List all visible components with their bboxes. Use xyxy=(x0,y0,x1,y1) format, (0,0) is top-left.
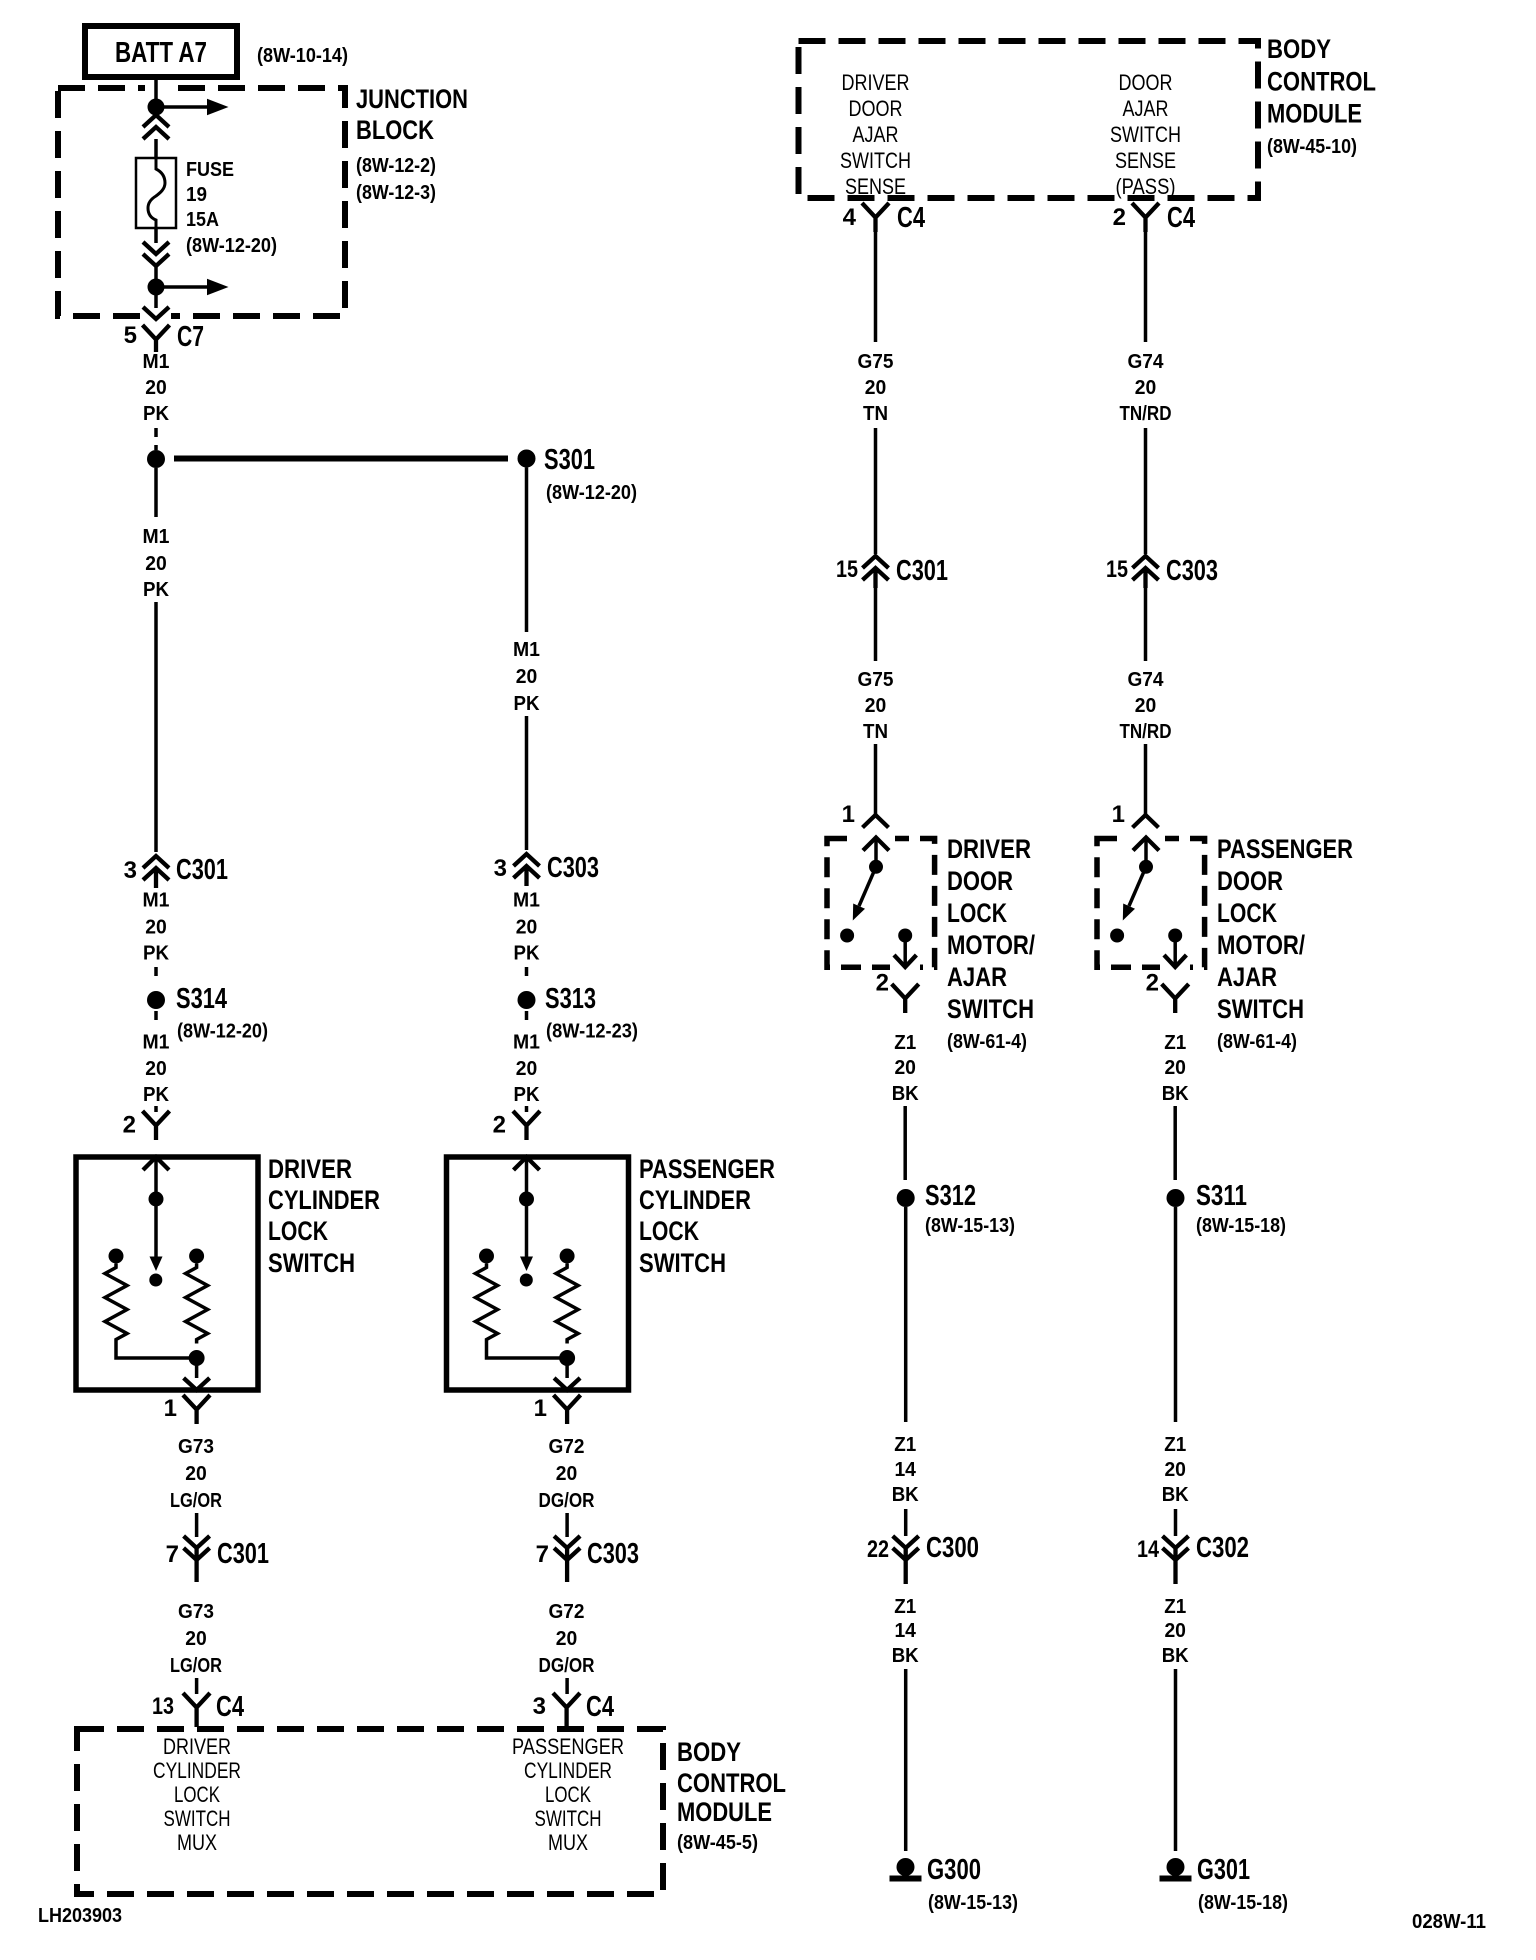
wire label Z1 20 BK xyxy=(892,1032,920,1105)
wire resistor bottoms join xyxy=(487,1344,568,1359)
svg-text:20: 20 xyxy=(145,553,167,575)
svg-text:BATT A7: BATT A7 xyxy=(115,37,207,69)
node at fuse feed xyxy=(148,99,165,116)
pin 1 chevron of passenger door lock motor xyxy=(1112,801,1159,828)
pin label door ajar switch sense (pass) xyxy=(1110,70,1181,199)
svg-text:LOCK: LOCK xyxy=(545,1782,591,1807)
svg-text:20: 20 xyxy=(556,1463,578,1485)
svg-text:DRIVER: DRIVER xyxy=(268,1154,352,1184)
svg-text:LOCK: LOCK xyxy=(268,1216,328,1246)
node at resistor join xyxy=(559,1350,575,1366)
connector C301 pin 7 xyxy=(166,1536,269,1582)
svg-text:SENSE: SENSE xyxy=(845,174,906,199)
ground G300 xyxy=(890,1854,982,1886)
svg-text:AJAR: AJAR xyxy=(1217,962,1277,992)
arrow feed to other circuits (top) xyxy=(164,99,229,116)
svg-text:G75: G75 xyxy=(858,351,894,373)
svg-text:PK: PK xyxy=(143,579,170,601)
svg-text:TN: TN xyxy=(863,721,888,743)
svg-text:M1: M1 xyxy=(143,351,170,373)
svg-text:S314: S314 xyxy=(176,983,227,1015)
wire label M1 20 PK xyxy=(143,526,170,601)
svg-text:CYLINDER: CYLINDER xyxy=(524,1758,612,1783)
svg-text:AJAR: AJAR xyxy=(1123,96,1169,121)
svg-text:S311: S311 xyxy=(1196,1180,1247,1212)
passenger door lock motor label xyxy=(1217,834,1353,1053)
svg-text:PK: PK xyxy=(514,693,541,715)
svg-text:15: 15 xyxy=(1106,556,1128,583)
svg-text:Z1: Z1 xyxy=(1164,1434,1186,1456)
svg-text:7: 7 xyxy=(536,1541,549,1568)
wire label M1 20 PK xyxy=(143,890,170,965)
resistor left (passenger cylinder lock switch) xyxy=(476,1264,498,1344)
entry arrow into driver cylinder lock switch xyxy=(143,1157,169,1192)
left contact node xyxy=(109,1249,124,1264)
svg-text:C7: C7 xyxy=(177,321,204,353)
wire col4 to S311 xyxy=(1173,1106,1177,1180)
svg-text:MODULE: MODULE xyxy=(677,1797,772,1827)
svg-text:LOCK: LOCK xyxy=(639,1216,699,1246)
dashed wire below S313 xyxy=(525,1011,529,1026)
splice S311 xyxy=(1167,1180,1248,1212)
entry arrow into passenger door lock motor box xyxy=(1133,838,1159,861)
dashed wire above S314 xyxy=(154,967,158,981)
svg-text:DRIVER: DRIVER xyxy=(163,1734,231,1759)
svg-text:SWITCH: SWITCH xyxy=(1110,122,1181,147)
svg-text:MOTOR/: MOTOR/ xyxy=(947,930,1035,960)
svg-text:SWITCH: SWITCH xyxy=(840,148,911,173)
connector C4 pin 4 fork (driver door ajar sense) xyxy=(843,202,925,234)
connector C301 pin 15 xyxy=(836,555,948,588)
svg-text:C302: C302 xyxy=(1196,1532,1249,1564)
svg-text:(PASS): (PASS) xyxy=(1116,174,1176,199)
connector C300 pin 22 xyxy=(867,1532,979,1584)
svg-text:Z1: Z1 xyxy=(1164,1596,1186,1618)
svg-text:(8W-61-4): (8W-61-4) xyxy=(947,1031,1027,1053)
svg-text:(8W-15-18): (8W-15-18) xyxy=(1198,1892,1288,1914)
wire to connector C4 pin 3 xyxy=(565,1678,569,1694)
svg-text:S301: S301 xyxy=(544,444,595,476)
svg-text:15: 15 xyxy=(836,556,858,583)
svg-text:TN/RD: TN/RD xyxy=(1120,721,1172,743)
svg-text:C301: C301 xyxy=(896,555,948,587)
svg-text:DG/OR: DG/OR xyxy=(539,1490,595,1512)
svg-text:3: 3 xyxy=(533,1693,546,1720)
pin 2 fork of driver cylinder lock switch xyxy=(123,1111,170,1140)
entry arrow into driver door lock motor box xyxy=(863,838,889,861)
svg-text:DOOR: DOOR xyxy=(1119,70,1173,95)
splice S313 xyxy=(518,983,597,1015)
svg-text:SWITCH: SWITCH xyxy=(268,1248,355,1278)
svg-text:MUX: MUX xyxy=(177,1830,217,1855)
svg-text:PK: PK xyxy=(514,1084,541,1106)
body control module bottom dashed box xyxy=(77,1729,663,1894)
connector C303 pin 7 xyxy=(536,1536,639,1582)
svg-text:20: 20 xyxy=(185,1628,207,1650)
exit wire and chevron of driver cylinder lock switch xyxy=(184,1358,210,1390)
svg-text:14: 14 xyxy=(1137,1536,1160,1563)
svg-text:BODY: BODY xyxy=(1267,34,1331,64)
svg-text:TN: TN xyxy=(863,403,888,425)
wire col3 to S312 xyxy=(903,1106,907,1180)
wire label Z1 14 BK xyxy=(892,1596,920,1667)
svg-text:20: 20 xyxy=(516,666,538,688)
svg-text:13: 13 xyxy=(152,1693,174,1720)
passenger door lock motor ajar switch dashed box xyxy=(1097,839,1205,968)
connector C302 pin 14 xyxy=(1137,1532,1249,1584)
svg-text:C301: C301 xyxy=(176,854,228,886)
pin label driver cylinder lock switch mux xyxy=(153,1734,241,1855)
svg-text:BK: BK xyxy=(1162,1484,1190,1506)
switch contact node left (passenger) xyxy=(1110,929,1124,943)
svg-text:(8W-10-14): (8W-10-14) xyxy=(257,45,348,67)
svg-text:BK: BK xyxy=(1162,1645,1190,1667)
wire label Z1 20 BK xyxy=(1162,1596,1190,1667)
dashed wire to splice node xyxy=(154,428,158,450)
svg-text:S312: S312 xyxy=(925,1180,976,1212)
wire label Z1 20 BK xyxy=(1162,1032,1190,1105)
fuse 19 15A xyxy=(136,158,176,228)
wire label Z1 20 BK xyxy=(1162,1434,1190,1506)
wire node to junction block edge xyxy=(154,295,158,308)
wire BATT A7 to node xyxy=(154,77,158,100)
wire col4 to ground xyxy=(1174,1669,1178,1851)
driver cylinder lock switch label xyxy=(268,1154,380,1278)
svg-text:LOCK: LOCK xyxy=(947,898,1007,928)
wire to passenger cylinder lock switch xyxy=(525,1106,529,1112)
svg-text:G300: G300 xyxy=(927,1854,981,1886)
right contact node xyxy=(560,1249,575,1264)
ground G301 xyxy=(1160,1854,1251,1886)
chevron at junction block exit xyxy=(143,307,169,319)
double chevron connector into fuse xyxy=(143,115,169,139)
wire col1 below node xyxy=(154,468,158,517)
svg-text:Z1: Z1 xyxy=(894,1596,916,1618)
svg-text:20: 20 xyxy=(1135,695,1157,717)
svg-text:20: 20 xyxy=(1164,1620,1186,1642)
svg-text:G72: G72 xyxy=(549,1601,585,1623)
svg-text:C4: C4 xyxy=(1167,202,1195,234)
svg-text:14: 14 xyxy=(894,1620,916,1642)
svg-text:MODULE: MODULE xyxy=(1267,99,1362,129)
svg-text:(8W-15-13): (8W-15-13) xyxy=(928,1892,1018,1914)
wire col4 to motor box xyxy=(1144,744,1148,815)
resistor left (driver cylinder lock switch) xyxy=(105,1264,127,1344)
svg-text:20: 20 xyxy=(894,1057,916,1079)
svg-text:BODY: BODY xyxy=(677,1737,741,1767)
exit wire and chevron of driver motor box xyxy=(894,936,916,968)
svg-text:BK: BK xyxy=(892,1645,920,1667)
wire label G72 20 DG/OR xyxy=(539,1601,595,1677)
splice S301 xyxy=(518,444,596,476)
svg-text:FUSE: FUSE xyxy=(186,159,234,181)
svg-text:G74: G74 xyxy=(1128,351,1165,373)
svg-text:C4: C4 xyxy=(586,1691,614,1723)
svg-text:M1: M1 xyxy=(513,639,540,661)
dashed wire above S313 xyxy=(525,967,529,981)
pin 1 fork below passenger cylinder lock switch xyxy=(534,1395,581,1424)
wire to connector C4 pin 13 xyxy=(195,1678,199,1694)
switch contact node right (driver) xyxy=(898,929,912,943)
svg-text:20: 20 xyxy=(516,917,538,939)
svg-text:CYLINDER: CYLINDER xyxy=(153,1758,241,1783)
svg-text:15A: 15A xyxy=(186,209,219,231)
battery feed box BATT A7 xyxy=(85,26,237,77)
wire label G72 20 DG/OR xyxy=(539,1436,595,1512)
svg-text:DOOR: DOOR xyxy=(1217,866,1283,896)
wire label G75 20 TN xyxy=(858,669,894,743)
svg-text:SWITCH: SWITCH xyxy=(639,1248,726,1278)
svg-text:BK: BK xyxy=(1162,1083,1190,1105)
svg-text:PASSENGER: PASSENGER xyxy=(512,1734,624,1759)
svg-text:M1: M1 xyxy=(143,1032,170,1054)
connector C303 pin 3 xyxy=(494,852,599,886)
junction block dashed box xyxy=(58,88,345,316)
wire col3 to ground xyxy=(904,1669,908,1851)
svg-text:19: 19 xyxy=(186,184,207,206)
svg-text:1: 1 xyxy=(164,1395,177,1422)
svg-text:20: 20 xyxy=(865,377,887,399)
wire col2 below S301 xyxy=(525,468,529,633)
svg-text:5: 5 xyxy=(124,322,137,349)
svg-text:C301: C301 xyxy=(217,1538,269,1570)
svg-text:20: 20 xyxy=(145,1058,167,1080)
pin 1 chevron of driver door lock motor xyxy=(842,801,889,828)
passenger cylinder lock switch box xyxy=(447,1157,629,1390)
svg-text:DOOR: DOOR xyxy=(849,96,903,121)
svg-text:CONTROL: CONTROL xyxy=(677,1768,786,1798)
wire col3 long run below S312 xyxy=(904,1207,908,1422)
svg-text:20: 20 xyxy=(556,1628,578,1650)
svg-text:20: 20 xyxy=(145,377,167,399)
svg-text:AJAR: AJAR xyxy=(947,962,1007,992)
splice S312 xyxy=(897,1180,976,1212)
wiper node of passenger cylinder lock switch xyxy=(519,1192,534,1207)
svg-text:22: 22 xyxy=(867,1536,889,1563)
svg-text:S313: S313 xyxy=(545,983,596,1015)
svg-text:CYLINDER: CYLINDER xyxy=(639,1185,751,1215)
wire to driver cylinder lock switch xyxy=(154,1106,158,1112)
svg-text:7: 7 xyxy=(166,1541,179,1568)
connector C4 pin 2 fork (passenger door ajar sense) xyxy=(1113,202,1195,234)
svg-text:SWITCH: SWITCH xyxy=(535,1806,602,1831)
svg-text:PK: PK xyxy=(143,403,170,425)
passenger cylinder lock switch label xyxy=(639,1154,775,1278)
svg-text:(8W-15-13): (8W-15-13) xyxy=(925,1215,1015,1237)
wire label Z1 14 BK xyxy=(892,1434,920,1506)
wire label M1 20 PK xyxy=(513,890,540,965)
svg-text:C303: C303 xyxy=(587,1538,639,1570)
wire label M1 20 PK xyxy=(513,1032,540,1107)
svg-text:2: 2 xyxy=(1146,970,1159,997)
switch pivot node (passenger) xyxy=(1139,860,1153,874)
svg-text:PK: PK xyxy=(514,943,541,965)
wiper arrow of passenger cylinder lock switch xyxy=(520,1199,533,1287)
svg-text:3: 3 xyxy=(124,857,137,884)
svg-text:M1: M1 xyxy=(513,1032,540,1054)
wire to connector C303 (lower) xyxy=(565,1513,569,1537)
wire col4 from C4 xyxy=(1144,232,1148,342)
svg-text:DRIVER: DRIVER xyxy=(947,834,1031,864)
fuse label FUSE 19 15A (8W-12-20) xyxy=(186,159,277,257)
svg-text:LG/OR: LG/OR xyxy=(170,1655,222,1677)
svg-text:(8W-12-2): (8W-12-2) xyxy=(356,155,436,177)
wire label M1 20 PK xyxy=(513,639,540,715)
svg-text:20: 20 xyxy=(865,695,887,717)
svg-text:M1: M1 xyxy=(143,890,170,912)
connector C301 pin 3 xyxy=(124,854,228,888)
svg-text:G74: G74 xyxy=(1128,669,1165,691)
svg-text:LOCK: LOCK xyxy=(174,1782,220,1807)
svg-text:(8W-12-23): (8W-12-23) xyxy=(546,1021,638,1043)
arrow feed to other circuits (bottom) xyxy=(164,279,229,296)
wire col2 long run xyxy=(525,716,529,850)
driver door lock motor label xyxy=(947,834,1035,1053)
driver cylinder lock switch box xyxy=(76,1157,258,1390)
exit wire and chevron of passenger motor box xyxy=(1164,936,1186,968)
wire col3 run to C301 xyxy=(874,428,878,554)
wiper node of driver cylinder lock switch xyxy=(149,1192,164,1207)
svg-text:3: 3 xyxy=(494,855,507,882)
wire col4 long run below S311 xyxy=(1174,1207,1178,1422)
svg-text:LOCK: LOCK xyxy=(1217,898,1277,928)
switch contact node right (passenger) xyxy=(1168,929,1182,943)
svg-text:2: 2 xyxy=(876,970,889,997)
switch arm with arrow (passenger) xyxy=(1123,867,1146,921)
svg-text:(8W-61-4): (8W-61-4) xyxy=(1217,1031,1297,1053)
svg-text:(8W-45-10): (8W-45-10) xyxy=(1267,136,1357,158)
double chevron connector below fuse xyxy=(143,242,169,266)
wire col4 below C303 xyxy=(1144,588,1148,661)
svg-text:20: 20 xyxy=(145,917,167,939)
connector C303 pin 15 xyxy=(1106,555,1218,588)
svg-text:G75: G75 xyxy=(858,669,894,691)
pin label driver door ajar switch sense xyxy=(840,70,911,199)
connector C4 pin 13 fork xyxy=(152,1691,244,1727)
svg-text:BK: BK xyxy=(892,1083,920,1105)
body control module top label xyxy=(1267,34,1376,158)
switch contact node left (driver) xyxy=(840,929,854,943)
svg-text:SWITCH: SWITCH xyxy=(1217,994,1304,1024)
switch arm with arrow (driver) xyxy=(853,867,876,921)
svg-text:G73: G73 xyxy=(178,1601,214,1623)
wire label M1 20 PK xyxy=(143,351,170,425)
resistor right (driver cylinder lock switch) xyxy=(186,1264,208,1344)
wire to connector C300 xyxy=(904,1509,908,1536)
svg-text:G73: G73 xyxy=(178,1436,214,1458)
svg-text:Z1: Z1 xyxy=(1164,1032,1186,1054)
svg-text:C4: C4 xyxy=(897,202,925,234)
wire label G75 20 TN xyxy=(858,351,894,425)
svg-text:SENSE: SENSE xyxy=(1115,148,1176,173)
wire label G74 20 TN/RD xyxy=(1120,669,1172,743)
svg-text:1: 1 xyxy=(1112,801,1125,828)
splice S314 xyxy=(147,983,227,1015)
svg-text:MOTOR/: MOTOR/ xyxy=(1217,930,1305,960)
connector C4 pin 3 fork (passenger mux) xyxy=(533,1691,614,1727)
dashed wire below S314 xyxy=(154,1011,158,1026)
switch pivot node (driver) xyxy=(869,860,883,874)
svg-text:Z1: Z1 xyxy=(894,1032,916,1054)
svg-text:SWITCH: SWITCH xyxy=(947,994,1034,1024)
connector C7 fork xyxy=(143,325,170,352)
svg-text:BK: BK xyxy=(892,1484,920,1506)
svg-text:(8W-12-20): (8W-12-20) xyxy=(177,1021,268,1043)
pin label passenger cylinder lock switch mux xyxy=(512,1734,624,1855)
svg-text:MUX: MUX xyxy=(548,1830,588,1855)
svg-text:C303: C303 xyxy=(1166,555,1218,587)
svg-text:20: 20 xyxy=(516,1058,538,1080)
wire resistor bottoms join xyxy=(116,1344,197,1359)
svg-text:G72: G72 xyxy=(549,1436,585,1458)
wiper arrow of driver cylinder lock switch xyxy=(149,1199,162,1287)
wire col3 from C4 xyxy=(874,232,878,342)
pin 2 fork of passenger cylinder lock switch xyxy=(493,1111,540,1140)
svg-text:CYLINDER: CYLINDER xyxy=(268,1185,380,1215)
svg-text:Z1: Z1 xyxy=(894,1434,916,1456)
svg-text:4: 4 xyxy=(843,204,857,231)
driver door lock motor ajar switch dashed box xyxy=(827,839,935,968)
svg-text:2: 2 xyxy=(493,1112,506,1139)
wire chevron to fuse xyxy=(154,139,158,158)
svg-text:C4: C4 xyxy=(216,1691,244,1723)
resistor right (passenger cylinder lock switch) xyxy=(556,1264,578,1344)
svg-text:SWITCH: SWITCH xyxy=(164,1806,231,1831)
svg-text:C300: C300 xyxy=(926,1532,979,1564)
wire to connector C301 (lower) xyxy=(195,1513,199,1537)
svg-text:20: 20 xyxy=(1164,1057,1186,1079)
junction block label xyxy=(356,84,468,145)
svg-text:(8W-12-20): (8W-12-20) xyxy=(186,235,277,257)
svg-text:PK: PK xyxy=(143,1084,170,1106)
svg-text:(8W-12-3): (8W-12-3) xyxy=(356,182,436,204)
svg-text:DOOR: DOOR xyxy=(947,866,1013,896)
wire to lower node xyxy=(154,266,158,280)
svg-text:028W-11: 028W-11 xyxy=(1412,1911,1486,1933)
svg-text:LH203903: LH203903 xyxy=(38,1905,122,1927)
pin 2 fork below driver motor box xyxy=(876,970,919,1014)
svg-text:TN/RD: TN/RD xyxy=(1120,403,1172,425)
wire col3 to motor box xyxy=(874,744,878,815)
right contact node xyxy=(189,1249,204,1264)
body control module bottom label xyxy=(677,1737,786,1854)
svg-text:1: 1 xyxy=(534,1395,547,1422)
wire col4 run to C303 xyxy=(1144,428,1148,554)
svg-text:DG/OR: DG/OR xyxy=(539,1655,595,1677)
wire col1 long run xyxy=(154,602,158,852)
svg-text:PASSENGER: PASSENGER xyxy=(1217,834,1353,864)
svg-text:PASSENGER: PASSENGER xyxy=(639,1154,775,1184)
node at S301 bus (left) xyxy=(147,450,165,468)
svg-text:20: 20 xyxy=(1164,1459,1186,1481)
svg-text:LG/OR: LG/OR xyxy=(170,1490,222,1512)
svg-text:DRIVER: DRIVER xyxy=(842,70,910,95)
node at resistor join xyxy=(189,1350,205,1366)
svg-text:(8W-12-20): (8W-12-20) xyxy=(546,482,637,504)
svg-text:JUNCTION: JUNCTION xyxy=(356,84,468,114)
exit wire and chevron of passenger cylinder lock switch xyxy=(554,1358,580,1390)
svg-text:20: 20 xyxy=(185,1463,207,1485)
svg-text:2: 2 xyxy=(123,1112,136,1139)
wire col3 below C301 xyxy=(874,588,878,661)
svg-text:14: 14 xyxy=(894,1459,916,1481)
svg-text:2: 2 xyxy=(1113,204,1126,231)
svg-text:G301: G301 xyxy=(1197,1854,1250,1886)
left contact node xyxy=(479,1249,494,1264)
svg-text:(8W-45-5): (8W-45-5) xyxy=(677,1832,758,1854)
pin 1 fork below driver cylinder lock switch xyxy=(164,1395,210,1424)
svg-text:C303: C303 xyxy=(547,852,599,884)
